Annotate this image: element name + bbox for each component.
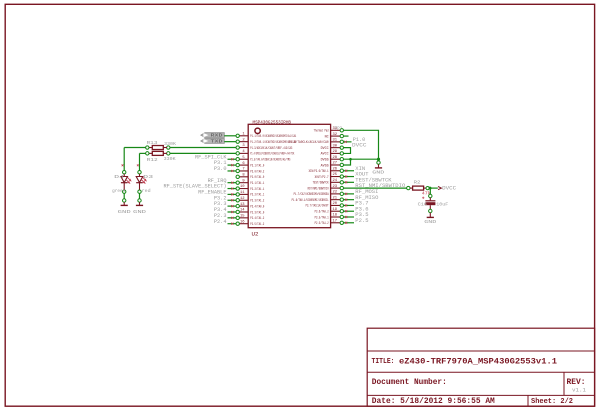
svg-text:P2.0/TA1.0: P2.0/TA1.0	[250, 175, 264, 179]
LED D4 anode lead	[123, 174, 125, 177]
wire D3 anode column	[139, 153, 141, 170]
GND lead D3	[139, 202, 141, 205]
resistor R2 body	[413, 186, 424, 190]
resistor R12 right terminal ring	[167, 152, 170, 155]
svg-text:P3.6/TA0.2: P3.6/TA0.2	[315, 210, 329, 214]
xref mark P3.3	[231, 205, 233, 207]
U2 right pin 24 circle	[340, 181, 343, 184]
GND pin ring right	[377, 161, 380, 164]
wire net RF_IRQ	[228, 182, 237, 184]
ground symbol D4	[121, 204, 128, 206]
wire pin4 to R12	[170, 152, 236, 154]
svg-text:NC: NC	[325, 134, 329, 138]
svg-text:P1.6/TA0.1/UCB0SOMI/UCB0SCL: P1.6/TA0.1/UCB0SOMI/UCB0SCL	[292, 198, 329, 202]
capacitor C16 plus mark	[422, 197, 424, 199]
supply symbol DVCC arrow	[438, 187, 441, 190]
xref mark RF_SPI_CLK	[231, 158, 233, 160]
xref mark P3.1	[231, 164, 233, 166]
U2 left pin 13 lead	[239, 205, 248, 207]
LED D3 anode lead	[139, 174, 141, 177]
U2 right pin 25 lead	[331, 176, 341, 178]
U2 right pin 28 circle	[340, 158, 343, 161]
svg-text:P1.5/TA0.0/UCB0CLK/UCA0STE/A5/: P1.5/TA0.0/UCB0CLK/UCA0STE/A5/TMS	[250, 158, 290, 162]
wire net P3.5	[344, 216, 355, 218]
capacitor C16 top plate	[425, 200, 435, 202]
svg-text:TXD: TXD	[211, 140, 224, 145]
svg-text:P1.3/ADC10CLK/CAOUT/VREF-/A3/C: P1.3/ADC10CLK/CAOUT/VREF-/A3/CA3	[250, 146, 292, 150]
LED D3 triangle	[136, 177, 143, 183]
svg-text:19: 19	[332, 208, 337, 212]
svg-text:TP?: TP?	[335, 127, 343, 131]
svg-text:AVSS: AVSS	[321, 163, 329, 167]
U2 left pin 8 lead	[239, 176, 248, 178]
wire net P2.5	[344, 222, 355, 224]
svg-text:GND: GND	[424, 219, 436, 225]
U2 left pin 3 lead	[239, 147, 248, 149]
svg-text:P2.5/TA1.2: P2.5/TA1.2	[250, 222, 264, 226]
title block row line 3	[367, 394, 594, 396]
wire thermal pad to GND vertical	[344, 130, 379, 159]
U2 left pin 10 lead	[239, 188, 248, 190]
wire net RF_STE(SLAVE_SELECT)	[228, 188, 237, 190]
U2 left pin 9 circle	[236, 181, 239, 184]
svg-text:green: green	[112, 190, 125, 194]
title block divider Sheet	[527, 395, 529, 406]
xref mark P2.5	[345, 222, 347, 224]
U2 right pin 28 lead	[331, 158, 341, 160]
U2 right pin 30 lead	[331, 147, 341, 149]
connector tag TXD	[201, 139, 225, 144]
xref mark TEST/SBWTCK	[345, 181, 347, 183]
svg-text:Thermal Pad: Thermal Pad	[314, 129, 329, 133]
xref mark P1.0	[345, 141, 347, 143]
wire net P3.7	[344, 204, 355, 206]
svg-text:REV:: REV:	[567, 379, 586, 387]
svg-text:P1.4/SMCLK/UCB0STE/UCA0CLK/VRE: P1.4/SMCLK/UCB0STE/UCA0CLK/VREF+/A4/TCK	[250, 152, 294, 156]
svg-text:24: 24	[332, 179, 337, 183]
IC pin-1 marker circle	[255, 128, 260, 133]
U2 right pin 27 circle	[340, 163, 343, 166]
svg-text:P2.5: P2.5	[355, 218, 368, 224]
U2 right pin 17 lead	[331, 222, 341, 224]
GND lead cap	[429, 213, 431, 218]
U2 right pin 18 circle	[340, 215, 343, 218]
U2 right pin 18 lead	[331, 216, 341, 218]
capacitor C16 bottom pin ring	[429, 209, 432, 212]
svg-text:25: 25	[332, 173, 337, 177]
GND pin ring D4	[123, 199, 126, 202]
wire net TEST/SBWTCK	[344, 181, 355, 183]
svg-text:P2.2/TA1.1: P2.2/TA1.1	[250, 187, 264, 191]
svg-text:GND: GND	[133, 209, 146, 215]
R2 left terminal ring	[407, 186, 410, 189]
R2 right terminal ring	[426, 187, 429, 190]
U2 left pin 14 lead	[239, 211, 248, 213]
wire pin3 to R13	[170, 147, 236, 149]
svg-text:17: 17	[332, 219, 337, 223]
svg-text:13: 13	[240, 203, 245, 207]
U2 left pin 10 circle	[236, 187, 239, 190]
U2 left pin 13 circle	[236, 204, 239, 207]
ground symbol right of IC	[375, 167, 382, 169]
capacitor C16 bottom plate	[425, 202, 435, 205]
svg-text:P1.0/TA0CLK/ACLK/A0/CA0: P1.0/TA0CLK/ACLK/A0/CA0	[289, 140, 329, 144]
U2 right pin 27 lead	[331, 164, 341, 166]
U2 right pin 33 circle	[340, 129, 343, 132]
svg-text:P3.2/TA1.1: P3.2/TA1.1	[250, 193, 264, 197]
wire DVSS to GND	[344, 158, 379, 160]
svg-text:Date: 5/18/2012 9:56:55 AM: Date: 5/18/2012 9:56:55 AM	[372, 398, 495, 406]
svg-text:P1.1/TA0.0/UCA0RXD/UCA0SOMI/A1: P1.1/TA0.0/UCA0RXD/UCA0SOMI/A1/CA1	[250, 134, 296, 138]
svg-text:16: 16	[240, 220, 245, 224]
junction GND net	[377, 158, 380, 161]
wire R2 to DVCC arrow	[429, 187, 438, 189]
resistor R12 right lead	[163, 152, 167, 154]
wire net XIN	[344, 170, 355, 172]
svg-text:RXD: RXD	[211, 134, 224, 139]
svg-text:eZ430-TRF7970A_MSP430G2553v1.1: eZ430-TRF7970A_MSP430G2553v1.1	[399, 357, 557, 367]
wire net P3.2	[228, 199, 237, 201]
svg-text:P3.0/TA0.2: P3.0/TA0.2	[250, 169, 264, 173]
resistor R12 left lead	[149, 152, 153, 154]
wire TXD to pin 2	[224, 141, 236, 143]
U2 left pin 8 circle	[236, 175, 239, 178]
svg-text:v1.1: v1.1	[572, 388, 586, 394]
U2 right pin 19 circle	[340, 210, 343, 213]
svg-text:27: 27	[332, 162, 337, 166]
U2 left pin 6 circle	[236, 163, 239, 166]
U2 left pin 5 circle	[236, 158, 239, 161]
U2 right pin 23 circle	[340, 186, 343, 189]
svg-text:P2.5/TA1.2: P2.5/TA1.2	[315, 221, 329, 225]
svg-text:U2: U2	[252, 230, 259, 237]
xref mark RF_MISO	[345, 199, 347, 201]
wire net P3.0	[228, 170, 237, 172]
resistor R12 body	[152, 151, 163, 155]
LED D4 triangle	[121, 177, 128, 183]
junction cap branch	[429, 187, 432, 190]
GND pin ring D3	[138, 199, 141, 202]
svg-text:P3.4/TA0.0: P3.4/TA0.0	[250, 204, 264, 208]
resistor R13 left lead	[149, 147, 153, 149]
svg-text:10uF: 10uF	[436, 202, 448, 208]
xref mark P2.4	[231, 223, 233, 225]
wire R13 to LED column	[124, 147, 145, 149]
wire net XOUT	[344, 176, 355, 178]
xref mark P3.4	[231, 211, 233, 213]
U2 left pin 2 circle	[236, 140, 239, 143]
U2 right pin 29 lead	[331, 152, 341, 154]
svg-text:P3.0: P3.0	[214, 166, 227, 172]
wire DVSS-AVSS bracket	[344, 159, 351, 165]
U2 left pin 1 lead	[239, 135, 248, 137]
svg-text:330K: 330K	[164, 157, 176, 162]
title block outline	[367, 328, 594, 406]
wire net P1.0	[344, 141, 352, 143]
U2 left pin 15 lead	[239, 217, 248, 219]
svg-text:TEST/SBWTCK: TEST/SBWTCK	[313, 181, 329, 185]
U2 right pin 29 circle	[340, 152, 343, 155]
U2 right pin 26 circle	[340, 169, 343, 172]
U2 left pin 12 circle	[236, 199, 239, 202]
capacitor C16 top lead	[429, 198, 431, 201]
U2 left pin 5 lead	[239, 158, 248, 160]
svg-text:18: 18	[332, 214, 337, 218]
svg-text:P2.4/TA1.2: P2.4/TA1.2	[250, 216, 264, 220]
LED D4 cathode ring	[123, 190, 126, 193]
svg-text:12: 12	[240, 197, 245, 201]
svg-text:10: 10	[240, 185, 245, 189]
U2 left pin 11 lead	[239, 193, 248, 195]
U2 right pin 23 lead	[331, 187, 341, 189]
U2 right pin 20 circle	[340, 204, 343, 207]
xref mark P2.3	[231, 217, 233, 219]
wire DVCC-AVCC bracket	[344, 148, 351, 154]
U2 right pin 25 circle	[340, 175, 343, 178]
wire RXD to pin 1	[224, 135, 236, 137]
xref mark P3.6	[345, 210, 347, 212]
svg-text:11: 11	[240, 191, 245, 195]
U2 right pin 30 circle	[340, 146, 343, 149]
U2 right pin 21 circle	[340, 198, 343, 201]
resistor R13 right terminal ring	[167, 146, 170, 149]
GND lead right	[378, 164, 380, 167]
svg-text:MSP430G2553IRHB: MSP430G2553IRHB	[253, 120, 292, 125]
U2 left pin 14 circle	[236, 210, 239, 213]
connector tag RXD	[201, 133, 225, 138]
svg-text:14: 14	[240, 209, 245, 213]
LED D4 cathode bar	[121, 182, 128, 184]
xref mark RF_STE(SLAVE_SELECT)	[231, 187, 233, 189]
xref mark RF_MOSI	[345, 193, 347, 195]
svg-text:21: 21	[332, 196, 337, 200]
U2 left pin 2 lead	[239, 141, 248, 143]
xref mark P3.2	[231, 199, 233, 201]
U2 right pin 21 lead	[331, 199, 341, 201]
wire net RF_SPI_CLK	[228, 158, 237, 160]
U2 right pin 33 lead	[331, 129, 341, 131]
wire NC stub	[344, 135, 349, 137]
svg-text:AVCC: AVCC	[321, 152, 329, 156]
svg-text:XIN/P2.6/TA0.1: XIN/P2.6/TA0.1	[309, 169, 329, 173]
xref mark RF_IRQ	[231, 182, 233, 184]
LED D4 cathode lead	[123, 183, 125, 190]
U2 left pin 4 lead	[239, 152, 248, 154]
svg-text:DVCC: DVCC	[442, 186, 456, 192]
resistor R2 left lead	[410, 187, 413, 189]
U2 right pin 19 lead	[331, 210, 341, 212]
U2 right pin 22 lead	[331, 193, 341, 195]
svg-text:P1.7/CA7/UCB0SIMO/UCB0SDA: P1.7/CA7/UCB0SIMO/UCB0SDA	[294, 192, 329, 196]
svg-text:R12: R12	[147, 157, 158, 163]
svg-text:31: 31	[332, 139, 337, 143]
LED D3 anode ring	[138, 171, 141, 174]
origin mark D3	[137, 164, 139, 166]
resistor R2 right lead	[424, 187, 426, 189]
svg-text:P3.5/TA0.1: P3.5/TA0.1	[315, 215, 329, 219]
svg-text:TITLE:: TITLE:	[372, 358, 395, 366]
xref mark P3.7	[345, 204, 347, 206]
svg-text:P2.1/TA1.1: P2.1/TA1.1	[250, 181, 264, 185]
svg-text:D4: D4	[114, 174, 124, 180]
svg-text:Document Number:: Document Number:	[372, 379, 447, 387]
U2 left pin 3 circle	[236, 146, 239, 149]
xref mark P3.5	[345, 216, 347, 218]
wire net P3.6	[344, 210, 355, 212]
wire D4 cathode to GND	[123, 193, 125, 198]
U2 left pin 7 lead	[239, 170, 248, 172]
svg-text:30: 30	[332, 144, 337, 148]
U2 left pin 9 lead	[239, 182, 248, 184]
wire net RF_MISO	[344, 199, 355, 201]
svg-text:29: 29	[332, 150, 337, 154]
svg-text:47k: 47k	[422, 190, 431, 196]
capacitor C16 top pin ring	[429, 194, 432, 197]
xref mark RF_ENABLE	[231, 193, 233, 195]
svg-text:P2.4: P2.4	[214, 219, 227, 225]
U2 right pin 20 lead	[331, 204, 341, 206]
junction bracket DVSS	[349, 158, 352, 161]
svg-text:red: red	[142, 189, 152, 194]
title block row line 1	[367, 350, 594, 352]
svg-text:15: 15	[240, 215, 245, 219]
LED D3 cathode bar	[136, 182, 143, 184]
svg-text:20: 20	[332, 202, 337, 206]
svg-text:P2.3/TA1.0: P2.3/TA1.0	[250, 210, 264, 214]
U2 right pin 31 circle	[340, 140, 343, 143]
wire net RF_MOSI	[344, 193, 355, 195]
U2 left pin 6 lead	[239, 164, 248, 166]
U2 left pin 16 lead	[239, 223, 248, 225]
svg-text:RST/NMI/SBWTDIO: RST/NMI/SBWTDIO	[308, 186, 329, 190]
svg-text:22: 22	[332, 191, 337, 195]
GND lead D4	[123, 202, 125, 205]
resistor R12 left terminal ring	[146, 152, 149, 155]
U2 right pin 32 circle	[340, 134, 343, 137]
LED D3 cathode ring	[138, 190, 141, 193]
U2 left pin 15 circle	[236, 216, 239, 219]
xref mark XOUT	[345, 175, 347, 177]
svg-text:XOUT/P2.7: XOUT/P2.7	[315, 175, 329, 179]
capacitor C16 bottom lead	[429, 205, 431, 209]
svg-text:GND: GND	[118, 209, 131, 215]
U2 right pin 32 lead	[331, 135, 341, 137]
svg-text:GND: GND	[372, 170, 384, 176]
U2 left pin 12 lead	[239, 199, 248, 201]
U2 left pin 11 circle	[236, 193, 239, 196]
U2 left pin 16 circle	[236, 222, 239, 225]
xref mark XIN	[345, 170, 347, 172]
LED D3 cathode lead	[139, 183, 141, 190]
svg-text:DVSS: DVSS	[321, 158, 329, 162]
LED D4 emission arrows	[126, 178, 130, 184]
svg-text:Sheet: 2/2: Sheet: 2/2	[531, 398, 573, 406]
xref mark P3.0	[231, 170, 233, 172]
op IC U2 MSP430G2553 body	[248, 124, 330, 227]
wire net P3.3	[228, 205, 237, 207]
svg-text:P3.1/TA1.0: P3.1/TA1.0	[250, 163, 264, 167]
wire net P2.3	[228, 217, 237, 219]
ground symbol below C16	[427, 216, 434, 218]
svg-text:DVCC: DVCC	[321, 146, 329, 150]
wire R12 to LED column	[140, 152, 146, 154]
wire net P3.1	[228, 164, 237, 166]
svg-text:28: 28	[332, 156, 337, 160]
title block divider REV	[563, 372, 565, 395]
U2 right pin 31 lead	[331, 141, 341, 143]
svg-text:26: 26	[332, 167, 337, 171]
resistor R13 body	[152, 146, 163, 150]
svg-text:R13: R13	[147, 140, 158, 146]
title block row line 2	[367, 371, 594, 373]
svg-text:330K: 330K	[164, 142, 176, 147]
svg-text:D3: D3	[143, 174, 153, 180]
svg-text:P3.7/TA1CLK/CAOUT: P3.7/TA1CLK/CAOUT	[306, 204, 329, 208]
ground symbol D3	[136, 204, 143, 206]
LED D4 anode ring	[123, 171, 126, 174]
svg-text:P3.3/TA1.2: P3.3/TA1.2	[250, 199, 264, 203]
svg-text:32: 32	[332, 133, 337, 137]
resistor R13 left terminal ring	[146, 146, 149, 149]
wire D4 anode column	[123, 148, 125, 171]
U2 right pin 26 lead	[331, 170, 341, 172]
wire net P3.4	[228, 211, 237, 213]
svg-text:DVCC: DVCC	[352, 143, 367, 149]
svg-text:R2: R2	[414, 180, 421, 186]
wire RST to R2	[344, 187, 407, 189]
LED D3 emission arrows	[142, 178, 146, 184]
svg-text:7: 7	[242, 168, 244, 172]
U2 left pin 4 circle	[236, 152, 239, 155]
wire junction down to C16	[429, 188, 431, 194]
U2 right pin 22 circle	[340, 192, 343, 195]
U2 left pin 1 circle	[236, 134, 239, 137]
U2 right pin 17 circle	[340, 221, 343, 224]
wire D3 cathode to GND	[139, 193, 141, 198]
svg-text:23: 23	[332, 185, 337, 189]
wire net RF_ENABLE	[228, 193, 237, 195]
U2 right pin 24 lead	[331, 181, 341, 183]
origin mark D4	[122, 164, 124, 166]
wire net P2.4	[228, 223, 237, 225]
U2 left pin 7 circle	[236, 169, 239, 172]
resistor R13 right lead	[163, 147, 167, 149]
svg-text:C16: C16	[418, 202, 428, 208]
